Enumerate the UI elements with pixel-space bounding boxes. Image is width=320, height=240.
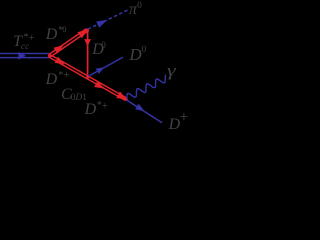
vertex B	[86, 29, 89, 32]
D+ arrowhead	[135, 104, 144, 112]
vertex C	[86, 76, 89, 79]
D*+ propagator double line A to D	[49, 55, 127, 101]
D0 outgoing arrowhead	[96, 67, 105, 74]
label D*+ lower	[85, 102, 97, 118]
photon gamma wavy line from D	[127, 75, 166, 99]
pi0 dashed line from B	[88, 10, 129, 30]
D*0 propagator double line A to B	[49, 29, 88, 57]
D*+ arrowhead after C	[94, 81, 104, 89]
label D0 outgoing	[129, 46, 141, 63]
D0 internal arrowhead pointing down	[84, 39, 91, 46]
label gamma	[167, 62, 176, 79]
D*0 arrowhead at B	[77, 30, 87, 39]
label D*0	[46, 27, 58, 43]
label D+	[169, 117, 181, 133]
label pi0	[129, 2, 137, 18]
D*+ arrowhead at D	[116, 91, 127, 99]
Tcc*+ incoming double line	[0, 54, 50, 58]
pi0 arrowhead	[96, 20, 107, 28]
label D0 internal	[92, 42, 104, 58]
D0 internal propagator vertical line B to C	[87, 30, 89, 77]
D*0 arrowhead near A	[54, 45, 64, 53]
D+ outgoing line from D	[126, 100, 162, 123]
label C0D1 coupling	[61, 87, 72, 103]
vertex D	[125, 98, 128, 101]
label Tcc*+	[13, 34, 22, 50]
Tcc line arrowhead	[18, 52, 26, 60]
D0 outgoing line from C	[88, 57, 123, 76]
label D*+ upper	[46, 72, 58, 88]
D*+ arrowhead near A	[55, 57, 65, 65]
vertex A	[48, 54, 51, 57]
